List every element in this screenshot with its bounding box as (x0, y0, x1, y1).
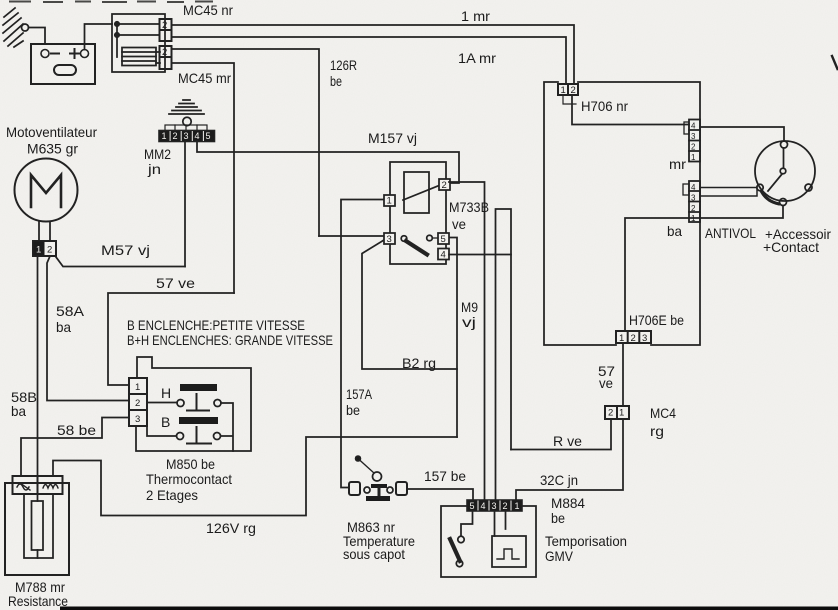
wire 1A mr (172, 37, 567, 84)
connector H706 1|2 (558, 84, 578, 95)
relay pin 3 (384, 233, 395, 244)
svg-text:2: 2 (173, 131, 178, 141)
svg-text:1: 1 (387, 196, 392, 207)
svg-text:4: 4 (481, 501, 486, 511)
svg-text:1: 1 (691, 214, 696, 223)
wire H706 pin2 to mr strip (572, 95, 689, 125)
svg-text:126V rg: 126V rg (206, 520, 256, 536)
wire MM2 pin3 to M57 (184, 142, 186, 267)
svg-text:Motoventilateur: Motoventilateur (6, 124, 97, 140)
svg-text:32C jn: 32C jn (540, 472, 578, 488)
svg-text:1: 1 (162, 131, 167, 141)
svg-text:ba: ba (667, 223, 682, 239)
svg-text:ba: ba (11, 403, 26, 419)
M884 connector strip 5 4 3 2 1 (467, 500, 522, 511)
ground (3, 8, 45, 47)
wire relay pin4 to R ve riser (449, 254, 511, 256)
svg-text:3: 3 (135, 414, 140, 425)
wire relay pin3 to B2 rg to pin5 riser (362, 240, 457, 369)
wire 157 be : M863 to M884 pin5 (407, 489, 473, 500)
M850 contact B circles (177, 433, 184, 440)
svg-text:1: 1 (619, 333, 624, 344)
svg-text:5: 5 (441, 234, 446, 245)
svg-text:B2 rg: B2 rg (402, 355, 436, 371)
resistance M788 box (5, 483, 69, 575)
wire 126R to relay pin3 (319, 235, 384, 237)
ignition terminal top (781, 141, 788, 148)
wire relay pin2 to M884 pin4 (M9 vj) (449, 182, 485, 500)
svg-text:1: 1 (619, 408, 624, 419)
wire ignition bottom terminal to H706E pin1 (625, 206, 783, 332)
svg-text:jn: jn (147, 161, 161, 177)
temporisation M884 box (441, 506, 536, 577)
relay coil (404, 172, 429, 213)
ba strip digits (691, 183, 696, 223)
svg-text:ANTIVOL: ANTIVOL (705, 225, 756, 241)
svg-text:M733B: M733B (449, 199, 489, 215)
svg-text:58A: 58A (56, 303, 85, 319)
svg-text:be: be (551, 510, 565, 526)
svg-text:126R: 126R (330, 57, 357, 73)
svg-text:M9: M9 (461, 299, 478, 315)
wire 58A ba (47, 256, 129, 401)
svg-text:ve: ve (599, 375, 613, 391)
wire 58B ba (37, 256, 39, 476)
MM2 strip digits (162, 131, 211, 141)
svg-text:3: 3 (184, 131, 189, 141)
svg-text:4: 4 (195, 131, 200, 141)
wire M157 vj : MM2 pin4 to relay pin2 (197, 142, 459, 184)
svg-text:1: 1 (561, 85, 566, 96)
motor stems (39, 222, 50, 242)
M850 inner wires (147, 403, 233, 452)
MC45 connector 2 (160, 46, 172, 69)
svg-text:5: 5 (206, 131, 211, 141)
svg-text:2: 2 (631, 333, 636, 344)
thermocontact M850 box (136, 357, 251, 451)
relay pin 2 (439, 179, 450, 190)
svg-text:B: B (161, 414, 170, 430)
svg-text:3: 3 (691, 132, 696, 141)
wire 57 ve (left) (108, 293, 234, 385)
svg-text:3: 3 (387, 234, 392, 245)
wire 1 mr (172, 25, 575, 84)
ignition rotor arc (762, 192, 779, 204)
M850 terminal strip 1 2 3 (129, 378, 147, 426)
motoventilateur M635 motor (15, 159, 78, 222)
busbar ba strip to ignition left terminal (700, 188, 757, 197)
wire MC45 to 57ve (172, 63, 235, 293)
scan artifact right edge mark (832, 56, 838, 69)
wire 126R be (172, 49, 320, 236)
svg-text:1A mr: 1A mr (458, 50, 496, 66)
scan artifact dashes top edge (10, 1, 212, 4)
svg-text:M57 vj: M57 vj (101, 242, 150, 258)
MC45 connector 1 (160, 19, 172, 41)
scan artifact bottom bar (60, 607, 838, 610)
relay M733B box (390, 162, 446, 264)
svg-text:4: 4 (441, 250, 446, 261)
connector strip mr (684, 120, 700, 162)
svg-text:R ve: R ve (553, 433, 582, 449)
svg-text:MM2: MM2 (144, 146, 171, 162)
svg-text:vj: vj (462, 314, 476, 330)
svg-text:1: 1 (36, 245, 41, 256)
M850 B pushrod (187, 427, 211, 444)
svg-text:2: 2 (135, 398, 140, 409)
svg-text:H: H (161, 385, 171, 401)
M850 contact B bar (179, 417, 218, 424)
ignition center pivot (780, 168, 786, 174)
temperature sensor M863 (349, 456, 407, 501)
svg-text:Resistance: Resistance (8, 593, 68, 609)
wire M57 vj (56, 257, 185, 267)
M884 strip digits (470, 501, 520, 511)
wire relay pin1 to 157A be to M863 (341, 200, 384, 488)
wire relay pin5 riser (447, 238, 457, 438)
svg-text:MC45 nr: MC45 nr (183, 2, 233, 18)
M788 resistor element (24, 494, 53, 558)
svg-text:2: 2 (691, 143, 696, 152)
M884 pulse relay (492, 536, 526, 567)
wire R ve riser and jog to M884 pin3 (496, 209, 512, 500)
M850 contact H circles (177, 400, 184, 407)
connector MC4 2|1 (605, 406, 629, 419)
ignition stem to top terminal (783, 148, 785, 168)
svg-text:157 be: 157 be (424, 468, 466, 484)
ignition switch ANTIVOL circle (755, 141, 815, 201)
relay pin 5 (438, 233, 449, 244)
M850 contact H bar (180, 384, 217, 391)
svg-text:M850 be: M850 be (166, 456, 215, 472)
svg-text:ba: ba (56, 319, 71, 335)
svg-text:sous capot: sous capot (343, 546, 405, 562)
svg-text:1 mr: 1 mr (461, 8, 490, 24)
connector M57 1|2 (33, 241, 56, 256)
M884 inner wires pins 3 and 2 (495, 511, 506, 536)
battery (31, 44, 95, 84)
svg-text:MC45 mr: MC45 mr (178, 70, 231, 86)
svg-text:H706 nr: H706 nr (581, 98, 628, 114)
svg-text:GMV: GMV (545, 548, 574, 564)
svg-text:2: 2 (691, 204, 696, 213)
svg-text:2: 2 (162, 20, 167, 31)
wire 58 be (21, 418, 129, 477)
connector H706E 1|2|3 (616, 331, 651, 343)
wire 57 ve (right) (622, 343, 624, 406)
svg-text:Temporisation: Temporisation (545, 533, 627, 549)
wire ground to battery (29, 28, 46, 45)
svg-text:2: 2 (608, 408, 613, 419)
ignition terminal left (757, 184, 763, 190)
wire mr strip to ignition top terminal (700, 127, 784, 141)
svg-text:3: 3 (691, 194, 696, 203)
wire MC4 to 32C jn to M884 pin1 (516, 419, 623, 500)
svg-text:1: 1 (515, 501, 520, 511)
svg-text:ve: ve (452, 216, 466, 232)
svg-text:4: 4 (691, 122, 696, 131)
M850 H pushrod (187, 394, 209, 411)
svg-text:B+H ENCLENCHES: GRANDE VITESSE: B+H ENCLENCHES: GRANDE VITESSE (127, 332, 333, 348)
relay pin 1 (384, 195, 395, 206)
M788 top connector with coil symbols (13, 476, 63, 494)
H706 bracket (563, 95, 576, 104)
svg-text:157A: 157A (346, 386, 373, 402)
svg-text:be: be (346, 402, 360, 418)
ignition terminal bottom (780, 199, 787, 206)
svg-text:H706E be: H706E be (629, 312, 684, 328)
svg-text:3: 3 (642, 333, 647, 344)
svg-text:2 Etages: 2 Etages (146, 487, 198, 503)
relay switch arm (401, 236, 407, 242)
svg-text:B ENCLENCHE:PETITE VITESSE: B ENCLENCHE:PETITE VITESSE (127, 317, 305, 333)
svg-text:1: 1 (691, 153, 696, 162)
svg-text:M884: M884 (551, 495, 585, 511)
svg-text:5: 5 (470, 501, 475, 511)
connector strip ba (683, 181, 700, 222)
svg-text:4: 4 (691, 183, 696, 192)
M884 inner switch (461, 511, 473, 536)
svg-text:M635 gr: M635 gr (27, 141, 78, 157)
svg-text:be: be (330, 73, 342, 89)
svg-text:58 be: 58 be (57, 422, 96, 438)
ignition terminal right (805, 184, 812, 191)
wire M788 to 126V rg (53, 437, 457, 516)
MM2 connector strip 1-5 (159, 131, 215, 142)
svg-text:MC4: MC4 (650, 405, 676, 421)
wire R ve (511, 419, 611, 450)
svg-text:57 ve: 57 ve (156, 275, 195, 291)
svg-text:1: 1 (135, 382, 140, 393)
MM2 sensor cone (165, 100, 207, 131)
relay pin 4 (438, 249, 449, 260)
svg-text:2: 2 (442, 180, 447, 191)
mr strip digits (691, 122, 696, 163)
antivol assembly box (544, 82, 700, 345)
MC45 internal resistor pack (122, 48, 156, 66)
wire battery plus to MC45 (85, 24, 113, 50)
relay coil diagonal (403, 186, 439, 201)
svg-text:rg: rg (650, 423, 664, 439)
svg-text:mr: mr (669, 156, 686, 172)
svg-text:2: 2 (162, 47, 167, 58)
svg-text:M157 vj: M157 vj (368, 130, 417, 146)
svg-text:Thermocontact: Thermocontact (146, 471, 232, 487)
connector block MC45 (112, 14, 172, 72)
ignition pointer (768, 174, 782, 191)
svg-text:2: 2 (503, 501, 508, 511)
svg-text:+Contact: +Contact (763, 239, 819, 255)
svg-text:2: 2 (47, 245, 52, 256)
svg-text:3: 3 (492, 501, 497, 511)
svg-text:2: 2 (571, 85, 576, 96)
